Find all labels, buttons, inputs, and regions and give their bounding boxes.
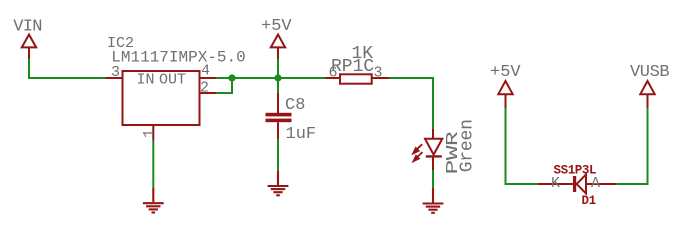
ground below IC2 pin 1: [143, 188, 164, 213]
svg-text:VIN: VIN: [13, 18, 42, 37]
diode D1 SS1P3L: [538, 175, 616, 194]
IC2 regulator LM1117 body rectangle: [123, 71, 200, 125]
wire pin 4 output net: [216, 77, 325, 79]
svg-text:1: 1: [141, 129, 158, 138]
svg-text:A: A: [591, 175, 600, 192]
svg-text:3: 3: [374, 65, 383, 82]
wire C8 to ground: [277, 139, 279, 171]
svg-text:6: 6: [329, 65, 338, 82]
wire junction down to C8: [277, 78, 279, 93]
svg-text:+5V: +5V: [261, 17, 292, 36]
LED emission arrows: [412, 144, 422, 162]
pin 2 stub of IC2: [200, 92, 216, 94]
resistor RP1C: [325, 74, 389, 83]
wire LED to ground: [432, 170, 434, 188]
pin 3 stub of IC2: [106, 77, 123, 79]
wire VUSB down to D1: [616, 108, 648, 184]
svg-text:SS1P3L: SS1P3L: [554, 164, 597, 178]
svg-text:2: 2: [200, 80, 209, 97]
svg-text:Green: Green: [458, 119, 478, 172]
capacitor C8: [266, 93, 292, 139]
wire +5V to net: [277, 59, 279, 78]
wire pin 1 to ground: [152, 141, 154, 189]
svg-text:1uF: 1uF: [286, 125, 317, 144]
junction at pin2/pin4 net: [228, 74, 235, 81]
supply symbol +5V left: [271, 35, 285, 59]
svg-text:VUSB: VUSB: [630, 63, 669, 82]
svg-text:+5V: +5V: [490, 63, 521, 82]
wire +5V right down to D1: [506, 108, 539, 184]
svg-text:C8: C8: [285, 96, 305, 115]
wire VIN to IC2 pin 3: [29, 59, 106, 78]
supply symbol VUSB: [640, 81, 654, 108]
svg-text:K: K: [551, 175, 560, 192]
svg-text:IN: IN: [137, 72, 155, 89]
wire resistor to LED: [389, 78, 433, 129]
svg-text:OUT: OUT: [159, 72, 186, 89]
svg-text:D1: D1: [582, 194, 596, 208]
LED PWR: [425, 129, 442, 170]
wire pin 2 to output net: [216, 80, 232, 93]
supply symbol VIN: [22, 35, 36, 59]
ground below C8: [268, 171, 289, 195]
supply symbol +5V right: [498, 81, 512, 108]
pin 1 stub of IC2: [152, 125, 154, 141]
pin 4 stub of IC2: [200, 77, 216, 79]
svg-text:4: 4: [201, 63, 210, 80]
svg-text:3: 3: [111, 64, 120, 81]
ground below LED: [423, 188, 444, 213]
junction at +5V / C8: [274, 74, 281, 81]
svg-text:LM1117IMPX-5.0: LM1117IMPX-5.0: [111, 49, 245, 67]
